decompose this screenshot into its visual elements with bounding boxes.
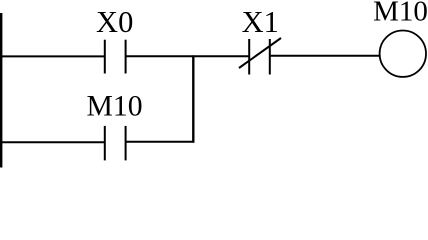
svg-text:X0: X0	[96, 5, 133, 39]
svg-text:M10: M10	[373, 0, 428, 28]
wire: contact X0 to contact X1 (top rung)	[126, 55, 248, 57]
wire: contact M10 to junction (bottom rung)	[126, 141, 194, 143]
svg-text:X1: X1	[242, 5, 279, 39]
contact X1 (normally closed)	[239, 38, 281, 75]
svg-text:M10: M10	[86, 91, 142, 123]
wire: contact X1 to coil M10	[271, 55, 380, 57]
wire: rail to contact M10 (bottom rung)	[0, 141, 104, 143]
junction: parallel branch connector (vertical wire)	[192, 55, 194, 142]
contact M10 (normally open, seal-in branch)	[105, 126, 126, 160]
wire: rail to contact X0 (top rung)	[0, 55, 104, 57]
coil M10 (circle)	[380, 31, 426, 77]
left power rail	[0, 13, 2, 168]
contact X0 (normally open)	[105, 40, 126, 74]
